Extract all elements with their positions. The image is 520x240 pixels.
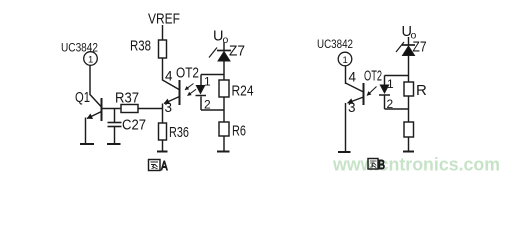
- resistor R38 label: [130, 38, 151, 55]
- svg-text:Q1: Q1: [75, 89, 90, 106]
- ground (C27): [107, 143, 121, 145]
- wire R24 to R6: [223, 97, 225, 122]
- svg-text:1: 1: [387, 77, 394, 91]
- pin label 4 (right optocoupler): [349, 70, 357, 85]
- wire VREF to R38: [162, 25, 164, 40]
- resistor R36 label: [169, 124, 189, 141]
- wire Q1 emitter to ground: [85, 118, 87, 144]
- optocoupler OT2 label (right): [364, 68, 382, 85]
- svg-text:Z7: Z7: [413, 39, 427, 56]
- resistor R6: [219, 122, 229, 136]
- pin 1 terminal circle (left UC3842): [84, 52, 98, 66]
- svg-text:C27: C27: [122, 117, 146, 134]
- wire lower resistor to ground (right): [408, 137, 410, 151]
- lower resistor (right, unlabeled): [404, 122, 414, 137]
- wire R6 to ground: [223, 136, 225, 151]
- svg-text:2: 2: [204, 98, 211, 112]
- ground (right transistor): [338, 151, 351, 153]
- wire Uo to zener Z7: [223, 42, 225, 50]
- svg-text:VREF: VREF: [148, 11, 180, 28]
- svg-text:R: R: [416, 82, 427, 99]
- ground (R6): [217, 151, 230, 153]
- zener Z7 label (left): [229, 43, 245, 60]
- ground (right rail): [403, 151, 414, 153]
- wire R to lower resistor (right): [408, 96, 410, 122]
- svg-text:OT2: OT2: [364, 68, 382, 85]
- resistor R6 label: [232, 123, 246, 140]
- resistor R label (right): [416, 82, 427, 99]
- pin label 1 (left LED): [204, 75, 211, 89]
- svg-text:4: 4: [349, 70, 357, 85]
- pin label 2 (left LED): [204, 98, 211, 112]
- resistor R37: [121, 105, 138, 113]
- svg-text:www.cntronics.com: www.cntronics.com: [332, 154, 500, 175]
- resistor R38: [159, 40, 167, 58]
- watermark www.cntronics.com: [332, 154, 500, 175]
- svg-text:4: 4: [165, 69, 173, 84]
- optocoupler light arrows (left): [185, 84, 196, 96]
- label UC3842 (right IC): [317, 37, 353, 51]
- optocoupler OT2 LED (right): [379, 85, 390, 96]
- optocoupler OT2 LED box (right): [385, 76, 410, 110]
- wire R36 to ground: [162, 140, 164, 151]
- optocoupler OT2 LED box (left): [201, 75, 224, 111]
- wire Uo to zener Z7 (right): [408, 37, 410, 45]
- wire pin1 to Q1 collector: [89, 65, 91, 94]
- resistor R24: [219, 80, 229, 97]
- optocoupler OT2 label (left): [176, 65, 199, 82]
- optocoupler OT2 phototransistor (left): [163, 80, 180, 105]
- wire node 3 to ground (right): [345, 103, 347, 152]
- wire R37 to node 3: [138, 108, 163, 110]
- ground (R36): [157, 151, 168, 153]
- resistor R36: [159, 123, 167, 140]
- output label Uo (right): [402, 24, 417, 42]
- resistor R24 label: [232, 83, 254, 100]
- output label Uo (left): [213, 29, 229, 47]
- zener diode Z7 (right): [396, 42, 415, 56]
- figure label A (boxed glyph + A): [149, 158, 168, 173]
- optocoupler OT2 phototransistor (right): [346, 83, 364, 105]
- svg-text:3: 3: [348, 100, 356, 115]
- zener Z7 label (right): [413, 39, 427, 56]
- pin label 1 (right LED): [387, 77, 394, 91]
- svg-text:R36: R36: [169, 124, 189, 141]
- wire R38 to optocoupler pin4: [162, 58, 164, 81]
- transistor Q1: [87, 94, 102, 121]
- svg-text:UC3842: UC3842: [317, 37, 353, 51]
- svg-text:Z7: Z7: [229, 43, 245, 60]
- svg-text:2: 2: [387, 97, 394, 111]
- wire Q1 base to R37: [102, 108, 121, 110]
- pin label 3 (right optocoupler): [348, 100, 356, 115]
- pin label 3 (left optocoupler): [165, 100, 173, 115]
- resistor R37 label: [115, 90, 139, 107]
- optocoupler light arrows (right): [367, 87, 377, 96]
- wire Z7 to R24: [223, 61, 225, 80]
- label UC3842 (left IC): [61, 41, 98, 55]
- svg-text:1: 1: [343, 55, 348, 66]
- svg-text:R6: R6: [232, 123, 246, 140]
- zener diode Z7 (left): [209, 48, 231, 62]
- pin label 2 (right LED): [387, 97, 394, 111]
- transistor Q1 label: [75, 89, 90, 106]
- net label VREF: [148, 11, 180, 28]
- pin 1 terminal circle (right UC3842): [338, 52, 352, 66]
- resistor R (right): [404, 82, 414, 96]
- svg-text:R24: R24: [232, 83, 254, 100]
- svg-text:A: A: [161, 158, 168, 173]
- ground (Q1 emitter): [80, 143, 94, 145]
- wire node 3 to R36: [162, 104, 164, 124]
- capacitor C27: [108, 109, 122, 144]
- figure label B (boxed glyph + B): [368, 157, 385, 172]
- capacitor C27 label: [122, 117, 146, 134]
- svg-text:OT2: OT2: [176, 65, 199, 82]
- svg-text:B: B: [378, 157, 385, 172]
- svg-text:R38: R38: [130, 38, 151, 55]
- svg-text:1: 1: [204, 75, 211, 89]
- wire pin1 to optocoupler pin4 (right): [345, 66, 347, 85]
- pin label 4 (left optocoupler): [165, 69, 173, 84]
- svg-text:3: 3: [165, 100, 173, 115]
- optocoupler OT2 LED (left): [196, 85, 207, 96]
- wire Z7 to R (right): [408, 56, 410, 83]
- svg-text:1: 1: [88, 55, 93, 66]
